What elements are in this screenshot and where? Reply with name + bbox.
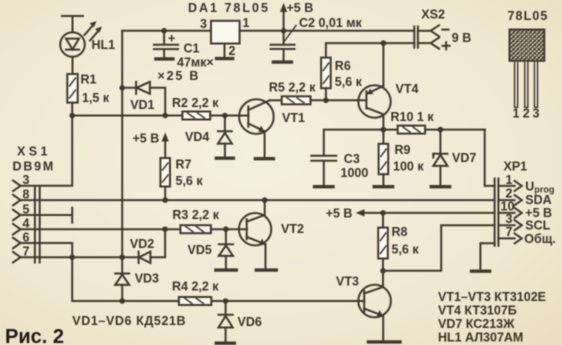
XS1 pin 4 — [13, 217, 30, 235]
transistor VT3 — [358, 271, 391, 340]
svg-text:3: 3 — [200, 17, 207, 31]
diode VD4 — [218, 116, 232, 157]
wire node A down to XS1 pin 3 — [21, 116, 73, 186]
ground XP1 pin 7 — [472, 270, 490, 273]
resistor R5 — [270, 96, 367, 104]
node VD1 anode bus junction — [119, 85, 125, 91]
resistor R8 — [378, 213, 388, 271]
svg-text:HL1 АЛ307АМ: HL1 АЛ307АМ — [438, 331, 523, 345]
wire HL1 to R1 — [72, 57, 74, 74]
XP1 pin 2 — [498, 187, 521, 206]
node A junction — [69, 113, 75, 119]
wire R1 to node A — [71, 103, 73, 116]
XP1 pin 10 — [498, 199, 521, 218]
ground VD7 — [431, 185, 449, 188]
svg-text:78L05: 78L05 — [508, 9, 549, 23]
resistor R1 — [67, 74, 77, 103]
svg-text:XS1: XS1 — [17, 145, 51, 159]
svg-text:DB9M: DB9M — [13, 160, 56, 174]
ground VD5 — [216, 268, 236, 271]
zener VD7 — [433, 130, 447, 185]
ground VT2 emitter — [256, 268, 276, 271]
ground C2 — [273, 60, 291, 63]
diode VD3 — [115, 257, 129, 301]
svg-text:R4 2,2 к: R4 2,2 к — [172, 280, 219, 294]
XP1 pin 3 — [498, 212, 521, 230]
pin 5 end bar — [71, 208, 73, 223]
wire XS1 pin 5 stub — [21, 214, 71, 216]
terminal T-bar above HL1 — [62, 16, 83, 32]
ground VD6 — [216, 342, 234, 345]
svg-text:VT3: VT3 — [336, 275, 359, 289]
node R7 bottom junction — [162, 197, 168, 203]
node VD6 junction — [223, 298, 229, 304]
svg-text:Рис. 2: Рис. 2 — [5, 326, 64, 345]
transistor VT4 — [358, 85, 390, 129]
svg-text:VD2: VD2 — [130, 237, 154, 251]
node VT4 emitter junction — [381, 40, 387, 46]
wire VT4 emitter drop — [382, 43, 384, 86]
svg-text:VT1–VT3 КТ3102Е: VT1–VT3 КТ3102Е — [438, 290, 546, 304]
ground VT1 emitter — [255, 157, 273, 160]
svg-text:R10 1 к: R10 1 к — [391, 110, 435, 124]
capacitor C1 — [154, 31, 178, 58]
svg-text:VD7: VD7 — [452, 151, 476, 165]
svg-text:DA1 78L05: DA1 78L05 — [188, 1, 270, 15]
svg-text:7: 7 — [506, 225, 513, 239]
svg-text:1: 1 — [506, 173, 513, 187]
XP1 pin 1 — [498, 173, 521, 191]
ground VT3 emitter — [368, 340, 400, 343]
node R8 bottom junction — [380, 268, 386, 274]
XP1 pin 7 — [498, 225, 521, 243]
wire XP1 pin 7 to ground — [480, 243, 494, 269]
svg-text:Общ.: Общ. — [524, 232, 555, 246]
wire Uprog riser to XP1 pin 1 — [485, 130, 495, 186]
svg-text:R7: R7 — [176, 158, 192, 172]
connector XS1 body — [35, 186, 40, 263]
svg-text:R8: R8 — [392, 225, 408, 239]
node VT4 collector junction — [381, 127, 387, 133]
resistor R3 — [180, 225, 247, 233]
wire top rail right to XS2 minus — [240, 30, 415, 32]
svg-text:VD6: VD6 — [238, 315, 262, 329]
svg-text:VD7 КС213Ж: VD7 КС213Ж — [438, 317, 515, 331]
wire XS1 pin 4 to R3 — [21, 228, 181, 230]
IC DA1 78L05 — [211, 21, 240, 44]
svg-text:R2 2,2 к: R2 2,2 к — [172, 96, 219, 110]
resistor R6 — [321, 58, 331, 101]
wire XS1 pin 6 joins pin 7 — [21, 243, 73, 257]
capacitor C3 — [311, 156, 336, 185]
transistor VT1 — [239, 99, 274, 157]
svg-text:+5 В: +5 В — [287, 1, 314, 15]
svg-text:VT4: VT4 — [396, 82, 419, 96]
connector XS2 — [414, 25, 439, 49]
svg-text:SCL: SCL — [525, 219, 550, 233]
node R8 top junction — [380, 210, 386, 216]
wire pin7 node down to R4 row — [72, 257, 179, 301]
svg-text:C2 0,01 мк: C2 0,01 мк — [299, 16, 363, 30]
wire R4 row to VT3 base — [211, 300, 364, 302]
node SDA/R7 junction is above; node VT2 collector junction — [262, 197, 268, 203]
+5V arrow top — [280, 3, 287, 31]
svg-text:3: 3 — [506, 212, 513, 226]
svg-text:C1: C1 — [184, 42, 200, 56]
wire top rail left — [122, 30, 211, 32]
svg-text:VD1–VD6 КД521В: VD1–VD6 КД521В — [72, 314, 186, 328]
node VD5 junction — [223, 226, 229, 232]
svg-text:3: 3 — [23, 173, 30, 187]
XS1 pin 6 — [13, 230, 30, 248]
node C1 junction — [161, 28, 167, 34]
wire XS2 plus rail to R6 — [326, 43, 414, 58]
diode VD5 — [219, 229, 233, 268]
label parts list — [438, 290, 546, 345]
wire XS1 pin 7 row — [21, 256, 123, 258]
diode VD2 — [122, 252, 150, 263]
svg-text:R9: R9 — [395, 143, 411, 157]
svg-text:VD1: VD1 — [130, 98, 154, 112]
svg-text:VT4 КТ3107Б: VT4 КТ3107Б — [438, 304, 517, 318]
svg-text:VT2: VT2 — [281, 222, 304, 236]
capacitor C2 — [271, 31, 295, 61]
node +5V/C2 junction — [281, 28, 287, 34]
svg-text:+5 В: +5 В — [326, 207, 353, 221]
78L05 package drawing — [510, 30, 545, 108]
XS1 pin 5 — [13, 202, 30, 220]
wire node A to VD1/R2 node — [72, 115, 165, 117]
resistor R10 — [383, 126, 484, 134]
ground C1 — [156, 57, 173, 60]
svg-text:5,6 к: 5,6 к — [335, 75, 363, 89]
svg-text:HL1: HL1 — [92, 38, 116, 52]
label minus — [442, 29, 448, 31]
svg-text:2: 2 — [229, 44, 236, 58]
node VD4 junction — [222, 113, 228, 119]
svg-text:5,6 к: 5,6 к — [392, 243, 420, 257]
label plus — [443, 42, 450, 49]
svg-text:XS2: XS2 — [421, 8, 445, 22]
svg-text:VD4: VD4 — [185, 130, 209, 144]
node R3 left junction — [162, 226, 168, 232]
node VD3 bottom junction — [119, 298, 125, 304]
svg-text:5,6 к: 5,6 к — [176, 174, 204, 188]
node R2 left junction — [162, 113, 168, 119]
node VD7 junction — [438, 127, 444, 133]
svg-text:C3: C3 — [344, 152, 360, 166]
svg-text:R5 2,2 к: R5 2,2 к — [269, 81, 316, 95]
svg-text:XP1: XP1 — [504, 160, 528, 174]
XS1 pin 7 — [13, 245, 30, 263]
wire collector row to C3 — [324, 130, 384, 155]
svg-text:R3 2,2 к: R3 2,2 к — [172, 208, 219, 222]
svg-text:SDA: SDA — [525, 193, 551, 207]
wire XS1 pin 8 to XP1 pin 2 (SDA net) — [21, 199, 495, 201]
svg-text:1000: 1000 — [341, 166, 369, 180]
wire left bus vertical — [121, 31, 123, 258]
svg-text:R1: R1 — [81, 73, 97, 87]
pin 2 DA1 with ground — [217, 44, 236, 59]
svg-text:2: 2 — [523, 107, 530, 121]
transistor VT2 — [239, 200, 271, 268]
LED HL1 — [60, 21, 102, 57]
node pins 6-7 junction — [69, 254, 75, 260]
svg-text:VD5: VD5 — [188, 243, 212, 257]
ground VD4 — [216, 156, 233, 159]
wire SCL path to XP1 pin 3 — [383, 225, 495, 271]
svg-text:VT1: VT1 — [282, 111, 305, 125]
resistor R2 — [165, 112, 248, 120]
diode VD6 — [219, 301, 233, 341]
connector XP1 body — [495, 179, 499, 246]
svg-text:1: 1 — [513, 107, 520, 121]
XS1 pin 3 — [13, 173, 30, 191]
svg-text:3: 3 — [533, 107, 540, 121]
svg-text:+5 В: +5 В — [133, 132, 160, 146]
svg-text:1,5 к: 1,5 к — [82, 91, 110, 105]
resistor R9 — [379, 130, 389, 185]
resistor R4 — [179, 297, 211, 305]
resistor R7 — [160, 158, 170, 200]
svg-text:VD3: VD3 — [135, 272, 159, 286]
ground R9 — [374, 185, 392, 188]
wire R3 node down to VD2 — [150, 229, 165, 257]
svg-text:R6: R6 — [335, 59, 351, 73]
+5V arrow feeding R7 — [162, 132, 169, 158]
node R6/R5 junction — [323, 98, 329, 104]
svg-text:47мк×: 47мк× — [177, 56, 214, 70]
XS1 pin 8 — [13, 188, 30, 206]
wire +5V row from XP1 pin 10 — [364, 212, 495, 214]
diode VD1 — [122, 82, 165, 116]
svg-text:+: + — [168, 32, 175, 46]
+5V arrow mid — [356, 209, 365, 216]
svg-text:9 В: 9 В — [452, 31, 471, 45]
svg-text:1: 1 — [243, 16, 250, 30]
svg-text:×25 В: ×25 В — [158, 69, 201, 83]
svg-text:100 к: 100 к — [393, 160, 424, 174]
ground C3 — [315, 185, 333, 188]
node VD2 bus junction — [119, 254, 125, 260]
